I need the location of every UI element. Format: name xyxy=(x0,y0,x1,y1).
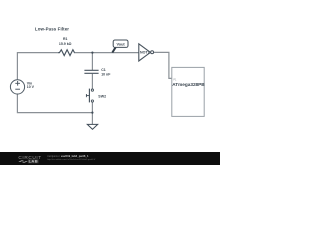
svg-text:C1: C1 xyxy=(101,68,106,72)
wire capacitor bottom to switch top xyxy=(91,74,93,89)
svg-text:SW2: SW2 xyxy=(98,95,106,99)
svg-text:monjurou / ese519_lab2_part6_1: monjurou / ese519_lab2_part6_1 xyxy=(47,154,89,158)
wire NOT output to ATmega pin xyxy=(154,52,172,78)
NOT gate NOT1 triangle xyxy=(139,44,151,61)
node A junction dot top xyxy=(91,52,93,54)
svg-text:LAB: LAB xyxy=(29,159,38,164)
switch SW2 pushbutton xyxy=(91,89,93,91)
wire top-left from source top, corner, to R1 left xyxy=(17,53,57,80)
resistor R1 zigzag xyxy=(58,50,75,56)
logo LAB xyxy=(28,159,39,163)
svg-text:10 V: 10 V xyxy=(27,85,35,89)
svg-text:NOT1: NOT1 xyxy=(140,51,150,55)
voltage source V1 circle xyxy=(10,80,24,94)
watermark bar xyxy=(0,152,220,165)
Vout flag tail xyxy=(112,47,115,52)
svg-text:Vout: Vout xyxy=(117,43,126,47)
plus sign xyxy=(15,81,20,86)
ground xyxy=(87,124,97,129)
wire capacitor top lead xyxy=(91,53,93,70)
NOT gate bubble xyxy=(151,51,154,54)
Vout callout box xyxy=(113,40,128,47)
minus sign xyxy=(15,88,20,90)
svg-text:10 nF: 10 nF xyxy=(101,73,111,77)
capacitor C1 plates xyxy=(84,70,98,73)
svg-text:15.9 kΩ: 15.9 kΩ xyxy=(59,42,72,46)
svg-text:http://circuitlab.com/c/e59v4s: http://circuitlab.com/c/e59v4s/ese519-la… xyxy=(47,158,95,161)
wire R1 right to NOT gate input xyxy=(75,52,139,54)
microcontroller U1 ATmega328PB box xyxy=(172,67,204,116)
wire bottom-left from source bottom, corner, to junction under switch xyxy=(17,94,92,113)
wire switch bottom to junction xyxy=(91,102,93,113)
wire ground lead xyxy=(91,113,93,125)
svg-text:Low-Pass Filter: Low-Pass Filter xyxy=(35,26,69,31)
logo waveform xyxy=(19,161,27,163)
node B junction dot bottom xyxy=(91,112,93,114)
svg-text:R1: R1 xyxy=(63,37,68,41)
svg-text:ATmega328PB: ATmega328PB xyxy=(172,82,205,87)
